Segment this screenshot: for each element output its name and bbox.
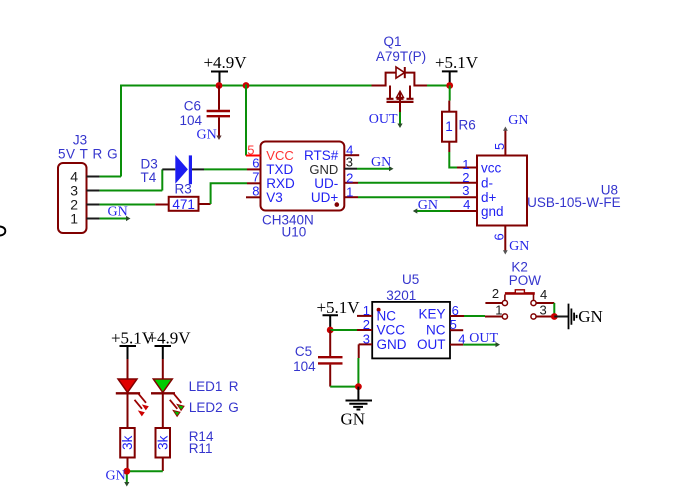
net label OUT (U5) <box>469 331 498 346</box>
svg-text:RXD: RXD <box>266 176 295 191</box>
svg-text:GN: GN <box>578 307 603 326</box>
svg-text:+5.1V: +5.1V <box>435 53 479 72</box>
wire: +5.1V to U5 VCC <box>330 329 357 331</box>
svg-text:GND: GND <box>377 337 407 352</box>
wire: D3 to CH340 TXD <box>204 168 247 170</box>
diode D3 <box>141 155 205 191</box>
pin 3 stub CH340 right (GND) <box>344 155 357 170</box>
wire: UD- to U8 d- <box>358 182 450 184</box>
wire: LED bottom GN bus <box>124 471 163 486</box>
pin 1 stub U5 <box>357 303 372 318</box>
svg-text:U5: U5 <box>402 272 419 287</box>
power +5.1V (LED1) <box>111 329 155 360</box>
pin 5 stub CH340 (red) <box>246 143 261 158</box>
svg-text:5V T R G: 5V T R G <box>58 147 118 162</box>
resistor R11 <box>155 428 170 471</box>
svg-text:GN: GN <box>341 410 366 429</box>
svg-text:5: 5 <box>450 317 457 332</box>
svg-text:NC: NC <box>426 323 446 338</box>
svg-text:vcc: vcc <box>481 160 502 175</box>
svg-text:6: 6 <box>492 233 507 240</box>
net label OUT (Q1) <box>369 112 398 127</box>
wire: C5 bottom to GND junction <box>330 386 358 388</box>
wire: CH340 GND GN stub <box>357 166 394 171</box>
svg-text:GN: GN <box>371 155 391 170</box>
switch K2 POW <box>485 260 554 320</box>
wire: U5 KEY to K2 <box>464 315 485 317</box>
capacitor C5 <box>293 330 342 387</box>
LED2 green <box>151 359 175 428</box>
svg-text:U10: U10 <box>282 224 307 239</box>
wire: U5 OUT stub <box>463 342 500 347</box>
svg-text:OUT: OUT <box>469 331 498 346</box>
svg-text:POW: POW <box>509 273 542 288</box>
LED labels <box>189 379 239 394</box>
svg-text:OUT: OUT <box>417 337 446 352</box>
power +4.9V top <box>203 53 247 86</box>
capacitor C6 <box>179 86 230 141</box>
svg-text:3k: 3k <box>120 435 135 450</box>
pin 1 stub U8 <box>457 157 477 172</box>
IC U5 3201 <box>372 272 450 358</box>
svg-text:1: 1 <box>363 303 370 318</box>
svg-text:USB-105-W-FE: USB-105-W-FE <box>527 195 621 210</box>
resistor R3 <box>155 182 210 212</box>
svg-text:2: 2 <box>492 286 499 301</box>
wire: U5 GND down <box>357 358 359 387</box>
svg-text:GN: GN <box>418 198 438 213</box>
svg-text:TXD: TXD <box>266 162 293 177</box>
wire: top horizontal +4.9V net <box>121 85 372 87</box>
wire: +5.1V down to R6 <box>449 86 451 101</box>
wire: K2 pin4 down to pin3 net <box>553 303 555 317</box>
svg-text:R6: R6 <box>459 118 476 133</box>
junction dot K2 <box>551 313 558 320</box>
svg-text:RTS#: RTS# <box>304 148 339 163</box>
power +5.1V top <box>435 53 479 86</box>
junction dot U5 VCC <box>327 327 334 334</box>
resistor R14 <box>120 428 135 471</box>
svg-text:LED2: LED2 <box>189 400 223 415</box>
net label GN (U8 pin5) <box>508 113 528 128</box>
svg-text:1: 1 <box>495 302 502 317</box>
power +5.1V (U5) <box>316 298 360 330</box>
transistor Q1 A79T(P) <box>372 34 428 112</box>
wire: vertical from junction to CH340 pin5 <box>245 85 247 156</box>
svg-text:3k: 3k <box>155 435 170 450</box>
junction dot LED GN <box>123 468 130 475</box>
wire: Q1 OUT stub <box>397 112 402 128</box>
pin 5 stub U5 <box>450 317 464 332</box>
ground symbol (U5) <box>341 387 372 429</box>
pin 3 stub U8 <box>450 183 477 198</box>
svg-text:471: 471 <box>172 197 195 212</box>
svg-text:104: 104 <box>293 359 316 374</box>
svg-text:VCC: VCC <box>377 323 406 338</box>
svg-text:3: 3 <box>462 183 469 198</box>
svg-text:G: G <box>228 400 239 415</box>
svg-text:2: 2 <box>363 317 370 332</box>
wire: UD+ to U8 d+ <box>358 196 450 198</box>
svg-text:KEY: KEY <box>418 306 445 321</box>
svg-text:Q1: Q1 <box>383 34 401 49</box>
net label GN (CH340 GND) <box>371 155 391 170</box>
pin 6 stub U5 <box>450 303 464 318</box>
svg-text:4: 4 <box>540 287 547 302</box>
pin 4 stub CH340 right <box>344 143 359 158</box>
svg-text:2: 2 <box>346 170 353 185</box>
pin 7 stub CH340 <box>247 169 261 184</box>
LED1 red <box>116 359 140 428</box>
svg-text:GN: GN <box>108 205 128 220</box>
svg-text:OUT: OUT <box>369 112 398 127</box>
net label GN (J3 pin1) <box>108 205 128 220</box>
net label GN (U8 gnd) <box>418 198 438 213</box>
LED2 emission arrows <box>170 394 184 417</box>
pin 4 stub U8 <box>450 197 477 212</box>
pin 6 stub CH340 <box>247 156 261 171</box>
net label GN (C6 bottom) <box>197 128 217 143</box>
svg-text:VCC: VCC <box>266 148 293 163</box>
svg-text:3: 3 <box>363 331 370 346</box>
ground symbol (K2, rotated) <box>569 304 603 330</box>
power +4.9V (LED2) <box>147 329 191 360</box>
frame letter partial at left edge <box>0 226 5 235</box>
svg-text:UD+: UD+ <box>311 190 338 205</box>
svg-text:GN: GN <box>509 239 529 254</box>
svg-text:R: R <box>229 379 239 394</box>
pin 2 stub CH340 right <box>344 170 358 185</box>
pin 3 stub U5 <box>359 331 373 358</box>
wire: K2 to ground <box>554 316 568 318</box>
junction dot U5 GND <box>355 383 362 390</box>
pin 6 stub U8 bottom <box>492 226 508 255</box>
svg-text:1: 1 <box>445 119 453 134</box>
svg-text:V3: V3 <box>266 190 283 205</box>
pin 2 stub U8 <box>450 170 477 185</box>
svg-text:6: 6 <box>252 156 259 171</box>
svg-text:3: 3 <box>346 155 353 170</box>
svg-text:LED1: LED1 <box>189 379 223 394</box>
connector U8 USB-105-W-FE <box>477 156 621 226</box>
svg-text:4: 4 <box>463 197 470 212</box>
svg-text:1: 1 <box>346 184 353 199</box>
svg-text:GN: GN <box>106 469 126 484</box>
wire: J3 pin1 GN stub <box>100 216 131 221</box>
svg-text:GN: GN <box>197 128 217 143</box>
resistor R6 <box>442 101 476 152</box>
svg-text:7: 7 <box>252 169 259 184</box>
svg-text:d-: d- <box>481 175 493 190</box>
resistor labels <box>189 429 214 444</box>
svg-text:1: 1 <box>70 211 78 227</box>
wire: R6 to U8 pin1 <box>449 152 457 168</box>
net label GN (U8 pin6) <box>509 239 529 254</box>
connector J3 <box>58 133 118 234</box>
svg-text:A79T(P): A79T(P) <box>376 49 426 64</box>
svg-text:+4.9V: +4.9V <box>203 53 247 72</box>
svg-text:8: 8 <box>252 184 259 199</box>
svg-text:C6: C6 <box>184 99 201 114</box>
svg-text:+5.1V: +5.1V <box>316 298 360 317</box>
junction dot at C6 <box>216 82 223 89</box>
svg-text:3201: 3201 <box>386 288 416 303</box>
svg-text:C5: C5 <box>295 344 312 359</box>
wire: left vertical from top wire to J3 pin4 <box>120 85 122 177</box>
svg-text:J3: J3 <box>73 133 87 148</box>
svg-text:3: 3 <box>540 302 547 317</box>
svg-text:5: 5 <box>492 143 507 150</box>
svg-text:GND: GND <box>309 162 338 177</box>
svg-text:d+: d+ <box>481 190 497 205</box>
svg-text:GN: GN <box>508 113 528 128</box>
IC U10 CH340N <box>261 142 345 240</box>
wire: top right segment to +5.1V junction <box>427 85 450 87</box>
net label GN (LED) <box>106 469 126 484</box>
wire: J3 pin2 to R3 <box>100 204 156 206</box>
wire: J3 pin4 to top net <box>100 176 121 178</box>
wire: U8 gnd GN stub <box>413 208 450 213</box>
wire: J3 pin3 to D3 <box>100 190 163 192</box>
svg-text:R3: R3 <box>175 182 192 197</box>
LED1 emission arrows <box>135 394 149 417</box>
pin 5 stub U8 top <box>492 127 508 156</box>
svg-text:gnd: gnd <box>481 204 504 219</box>
pin 1 stub CH340 right <box>344 184 358 199</box>
svg-text:T4: T4 <box>141 170 157 185</box>
svg-text:UD-: UD- <box>314 176 338 191</box>
pin 4 stub U5 <box>450 331 465 346</box>
pin 8 stub CH340 <box>246 184 261 199</box>
pin 2 stub U5 <box>357 317 372 332</box>
junction dot at +5.1V <box>446 82 453 89</box>
wire: R3 up to CH340 RXD <box>211 183 247 204</box>
svg-text:R11: R11 <box>189 441 213 456</box>
svg-text:104: 104 <box>179 113 202 128</box>
svg-text:NC: NC <box>377 308 397 323</box>
junction dot at CH340 VCC column <box>243 82 250 89</box>
svg-text:+4.9V: +4.9V <box>147 329 191 348</box>
svg-text:6: 6 <box>452 303 459 318</box>
